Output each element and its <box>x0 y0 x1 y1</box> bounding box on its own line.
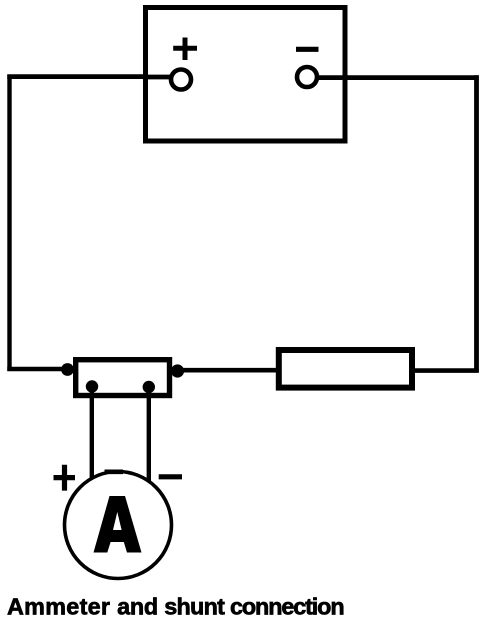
terminal circle: battery - terminal <box>297 67 317 87</box>
shunt resistor RS (box) <box>76 360 170 396</box>
wire: bottom middle horizontal from shunt to load resistor <box>172 368 280 373</box>
junction node: left end of shunt <box>61 363 74 376</box>
wire: stub from battery left edge to + terminal <box>143 75 172 80</box>
wire: bottom-right horizontal from load resistor to right vertical <box>410 368 479 373</box>
junction node: shunt potential tap right <box>143 381 155 393</box>
- polarity mark of battery <box>296 47 319 52</box>
junction node: shunt potential tap left <box>86 380 98 392</box>
wire: bottom-left horizontal from left vertical to shunt <box>7 367 72 372</box>
resistor R1 (load box) <box>279 350 412 388</box>
svg-text:Ammeter and shunt connection: Ammeter and shunt connection <box>7 594 344 620</box>
ammeter M1 (circle) <box>65 472 172 579</box>
caption: figure title <box>7 594 344 620</box>
ammeter letter A <box>94 496 142 553</box>
wire: top-right horizontal from - terminal circle to right corner <box>316 75 479 80</box>
- polarity mark at ammeter <box>159 474 182 479</box>
junction node: right end of shunt <box>171 364 184 377</box>
wire: left vertical from top-left corner down to shunt level <box>7 75 11 372</box>
terminal circle: battery + terminal <box>171 70 191 90</box>
+ polarity mark at ammeter <box>54 465 76 491</box>
battery B1 (source box) <box>146 8 346 142</box>
+ polarity mark of battery <box>173 38 197 61</box>
wire: flat tick on top arc of ammeter <box>105 469 124 474</box>
wire: stub from - terminal to battery right edge <box>316 75 348 80</box>
wire: left lead from shunt tap down to ammeter <box>90 388 94 480</box>
wire: right lead from shunt tap down to ammeter <box>147 388 151 483</box>
wire: top-left horizontal from corner to + terminal circle <box>7 74 172 79</box>
wire: right vertical from top-right corner down to load resistor level <box>474 75 479 372</box>
